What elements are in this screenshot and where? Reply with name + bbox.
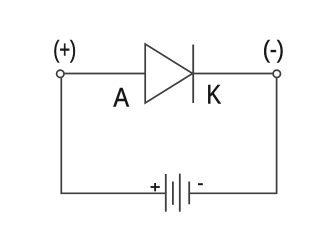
- diode D1 triangle (anode): [145, 44, 192, 103]
- battery BT1 plate short (-): [188, 182, 190, 205]
- battery BT1 plate short: [172, 182, 174, 205]
- wire: battery to bottom-right + right vertical: [189, 77, 276, 193]
- svg-text:A: A: [113, 83, 129, 113]
- wire: left vertical + bottom-left to battery: [61, 77, 165, 193]
- battery + sign: [151, 183, 160, 191]
- wire: diode cathode to right terminal: [193, 73, 273, 75]
- wire: left terminal to diode anode: [64, 73, 145, 75]
- terminal node (+) circle: [57, 70, 64, 77]
- svg-text:(-): (-): [263, 35, 284, 63]
- svg-text:K: K: [207, 80, 222, 110]
- terminal node (-) circle: [273, 70, 280, 77]
- battery BT1 plate long: [179, 174, 181, 212]
- battery - sign: [198, 183, 203, 185]
- svg-text:(+): (+): [53, 35, 76, 63]
- battery BT1 plate long (+): [165, 174, 167, 212]
- diode D1 cathode bar: [192, 45, 194, 104]
